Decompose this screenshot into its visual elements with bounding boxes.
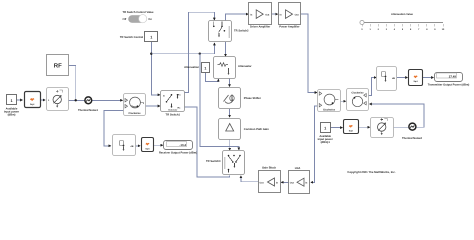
transmitter power meter (377, 67, 397, 91)
receiver dBm converter (142, 138, 154, 152)
svg-text:Driver Amplifier: Driver Amplifier (250, 26, 270, 29)
wire: TR Switch2 down to Attenuator (225, 42, 227, 57)
wire: power meter to dBm2 (397, 77, 408, 79)
RF blockset block (47, 55, 69, 76)
circulator (left) (124, 94, 146, 116)
svg-text:Copyright 2021 The MathWorks,: Copyright 2021 The MathWorks, Inc. (347, 170, 395, 174)
wire: Thermal Noise2 loop up to circulator2 (369, 104, 424, 127)
circulator2 (347, 89, 369, 111)
wire: control horizontal to TR Switch2 (151, 43, 214, 54)
svg-text:TR Switch Control Value: TR Switch Control Value (122, 11, 154, 14)
svg-text:27.49: 27.49 (449, 74, 457, 78)
TR Switch3 (206, 151, 245, 175)
Phase Shifter (219, 88, 261, 109)
wire: attenuation const loop to attenuator bottom (205, 72, 218, 81)
svg-text:Power Amplifier: Power Amplifier (279, 26, 299, 29)
TR Switch1 (161, 91, 185, 117)
attenuation slider UI (360, 13, 445, 31)
thermal noise 1 (78, 97, 99, 112)
svg-text:Clockwise: Clockwise (323, 108, 336, 111)
svg-text:Out: Out (290, 182, 294, 185)
svg-text:Gain Block: Gain Block (262, 167, 277, 170)
svg-text:Sqrt: Sqrt (145, 147, 149, 150)
svg-text:Out: Out (260, 181, 264, 184)
wire: LNA to gain block (281, 181, 288, 183)
svg-text:Out: Out (295, 13, 299, 16)
dBm converter block (MATLAB fcn) (25, 92, 41, 108)
wire: driver to power amp (272, 13, 278, 15)
wire: source2 to Thermal Noise2 (393, 126, 409, 128)
svg-text:dB: dB (131, 145, 134, 148)
TR Switch2 (209, 21, 249, 42)
wire: receiver power to dBm4 (135, 145, 140, 147)
Attenuator (214, 57, 252, 79)
svg-text:Receiver Output Power (dBm): Receiver Output Power (dBm) (159, 152, 197, 155)
node junction RF/main (75, 99, 77, 101)
wire: dBm4 to receiver display (154, 144, 163, 146)
svg-text:(dBm): (dBm) (8, 114, 16, 117)
svg-text:dB: dB (392, 77, 395, 80)
wire: TR Switch1 to TR Switch2 TX loop (185, 12, 215, 92)
wire: circulator2 up to power meter (369, 78, 377, 96)
wire: circulator lower port to receiver power block (104, 110, 124, 145)
svg-text:Off: Off (123, 18, 127, 21)
svg-text:(dBm)1: (dBm)1 (321, 141, 331, 144)
svg-text:1: 1 (204, 67, 206, 71)
svg-text:Modulator: Modulator (168, 108, 177, 111)
toggle switch UI (122, 11, 154, 23)
wire: dBm2 to display (423, 77, 434, 79)
svg-text:TR Switch2: TR Switch2 (234, 30, 249, 33)
svg-text:Attenuation: Attenuation (184, 66, 199, 69)
svg-text:Sqrt: Sqrt (414, 80, 418, 83)
TR Switch Control constant (120, 32, 158, 42)
wire: circulator1 down to LNA input (311, 106, 318, 183)
svg-text:RF: RF (54, 63, 62, 70)
svg-text:Thermal Noise1: Thermal Noise1 (78, 109, 99, 112)
svg-text:Attenuation Value: Attenuation Value (391, 13, 413, 16)
wire: circulator to TR Switch1 (145, 105, 160, 107)
node junction control (150, 53, 152, 55)
svg-text:1: 1 (10, 99, 12, 103)
transmitter dBm converter (409, 70, 423, 86)
wire: const1 to dBm converter (16, 99, 23, 101)
wire: dBm3 to source2 (358, 126, 370, 128)
svg-text:Transmitter Output Power (dBm): Transmitter Output Power (dBm) (428, 84, 470, 87)
svg-text:Sqrt: Sqrt (30, 103, 35, 106)
wire: phase shifter to common path gain (229, 109, 231, 117)
transmitter display (428, 73, 470, 87)
constant Available input power (dBm) (4, 95, 19, 117)
wire: RF block drop (69, 65, 76, 100)
receiver display (159, 141, 197, 155)
thermal noise 2 (402, 123, 423, 140)
constant available input power 2 (318, 123, 333, 145)
wire: Thermal Noise1 to Circulator (92, 99, 123, 101)
wire: TR Switch Control drop (151, 42, 160, 95)
svg-text:On: On (148, 18, 152, 21)
Gain Block (259, 167, 281, 193)
svg-text:-10.4: -10.4 (179, 143, 186, 147)
svg-text:Sqrt: Sqrt (349, 129, 353, 132)
source block 2 (371, 118, 394, 138)
attenuation constant (184, 63, 209, 73)
wire: power amp down to Circulator1 (301, 14, 317, 92)
node junction control branch (199, 53, 201, 55)
svg-text:Attenuator: Attenuator (238, 65, 252, 68)
svg-text:TR Switch1: TR Switch1 (166, 114, 181, 117)
svg-text:TR Switch3: TR Switch3 (206, 160, 221, 163)
wire: attenuator to phase shifter (229, 78, 231, 86)
LNA (289, 167, 310, 194)
circulator1 (318, 90, 341, 112)
Driver Amplifier (249, 3, 272, 29)
svg-text:Thermal Noise2: Thermal Noise2 (402, 137, 423, 140)
svg-text:Common Path Gain: Common Path Gain (244, 128, 269, 131)
wire: TR Switch2 to Driver Amplifier (225, 14, 248, 21)
source block (controlled source) (47, 88, 69, 111)
Common Path Gain (219, 119, 270, 140)
wire: source to Thermal Noise1 (68, 99, 85, 101)
wire: TR Switch1 lower to TR Switch3 (185, 107, 230, 177)
dBm converter 3 (344, 120, 359, 134)
svg-text:LNA: LNA (295, 167, 301, 170)
svg-text:Clockwise: Clockwise (351, 92, 364, 95)
wire: const2 to dBm3 (330, 127, 342, 129)
receiver power meter (113, 135, 136, 156)
svg-text:TR Switch Control: TR Switch Control (120, 36, 144, 39)
svg-text:Out: Out (265, 13, 269, 16)
svg-text:Clockwise: Clockwise (128, 112, 141, 115)
wire: common path gain to TR Switch3 (229, 139, 231, 150)
wire: gain block to TR Switch3 (241, 176, 258, 182)
wire: control down to TR Switch3 (200, 54, 239, 150)
svg-text:1: 1 (324, 127, 326, 131)
svg-text:Phase Shifter: Phase Shifter (244, 97, 261, 100)
wire: dBm to source (40, 99, 45, 101)
svg-text:1: 1 (150, 36, 152, 40)
wire: circulator1 to circulator2 (340, 100, 346, 102)
Power Amplifier (279, 3, 301, 29)
